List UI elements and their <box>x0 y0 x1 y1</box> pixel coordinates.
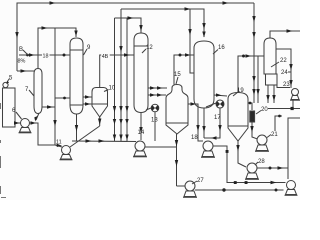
label 22 <box>280 58 287 64</box>
pump 17 <box>206 103 216 107</box>
bottom right collection line <box>268 108 300 110</box>
column 22 right outlet down to pump 23 <box>276 49 291 88</box>
pump 27 discharge line <box>195 189 284 191</box>
label 20 <box>261 107 268 113</box>
slurry diagonal to pump 11 <box>70 126 100 147</box>
svg-text:8%: 8% <box>18 59 26 65</box>
column 16 <box>194 41 214 108</box>
label 4B on vapor line <box>101 52 110 60</box>
pump 14 <box>135 141 145 151</box>
small elbow above pump 21 <box>275 116 282 131</box>
feed into column 7 top <box>17 70 34 72</box>
label 17 <box>214 115 221 121</box>
label 21 <box>271 132 278 138</box>
svg-text:9: 9 <box>87 45 91 51</box>
vessel 15 vapor to column 16 <box>174 55 194 85</box>
pump 29 <box>287 181 296 190</box>
label 23 <box>283 82 290 88</box>
label 18 on feed line <box>42 52 50 60</box>
pipe second header to column 16 <box>121 9 204 37</box>
ejector 20 <box>250 111 255 122</box>
label 14 <box>138 130 145 136</box>
pipe long vertical x127 <box>126 18 128 141</box>
svg-text:18: 18 <box>43 53 49 59</box>
vessel 19 right outlet <box>248 103 252 110</box>
column 9 to vessel 10 lines <box>83 96 92 98</box>
pump 11 <box>62 146 71 155</box>
pump 13 down pipe <box>154 112 156 141</box>
tank 5 agitated <box>3 88 16 127</box>
pipe long vertical x113 <box>114 18 116 141</box>
right riser and exit <box>288 118 300 179</box>
svg-text:27: 27 <box>197 178 204 184</box>
pipe third header to column 12 <box>115 18 142 33</box>
pump 18 discharge <box>213 146 227 183</box>
pump 13 <box>146 108 151 110</box>
column 7 <box>34 69 42 114</box>
vessel 10 <box>92 88 108 105</box>
pump 18 <box>203 141 213 151</box>
pump 11 discharge manifold line <box>72 140 136 143</box>
label 27 <box>197 178 204 184</box>
label 16 <box>218 45 225 51</box>
feed drop into column 16 left <box>190 9 194 73</box>
vessel 15 right outlet <box>188 104 203 141</box>
svg-text:18: 18 <box>191 135 198 141</box>
label 19 <box>237 88 244 94</box>
vessel 10 vapor line to column 12 <box>100 55 134 88</box>
pump 23 discharge down <box>292 101 294 109</box>
leader from B <box>23 50 28 55</box>
column 22 bottom outlet elbow <box>277 85 290 88</box>
svg-text:16: 16 <box>218 45 225 51</box>
svg-text:4B: 4B <box>102 54 109 60</box>
column 12 bottom drain to pump 14 <box>140 113 142 141</box>
label 13 <box>151 118 158 124</box>
vessel 19 <box>228 93 248 127</box>
scan artifacts left edge <box>1 103 7 198</box>
pipe branch x56 <box>54 28 56 145</box>
svg-text:B: B <box>19 47 23 53</box>
svg-text:10: 10 <box>109 86 116 92</box>
svg-text:7: 7 <box>25 87 29 93</box>
pipe vessel15 drain to pump 27 <box>177 185 185 187</box>
column 12 <box>134 33 148 113</box>
pipe long vertical x120 <box>120 9 122 141</box>
svg-text:23: 23 <box>283 82 290 88</box>
vessel 19 bottom drain to pump 28 <box>238 141 246 167</box>
pipe column 7 vapor to column 9 top <box>38 28 76 68</box>
vessel 15 bottom drain <box>176 134 178 186</box>
ejector 20 down to pump 21 <box>252 122 258 139</box>
label 18 pump <box>191 135 198 141</box>
pump 17 down pipe <box>204 108 220 138</box>
pump 28 discharge <box>257 167 288 169</box>
pump 27 <box>185 181 195 191</box>
stirrer motor of tank 5 <box>3 82 8 87</box>
label 15 <box>174 72 181 78</box>
column 9 <box>70 38 83 114</box>
column 16 right outlet to vessel 19 <box>214 95 227 96</box>
bottom transfer line to pump 29 <box>227 182 286 184</box>
label 24 <box>281 70 288 76</box>
pump 14 discharge <box>145 146 177 148</box>
vessel 15 <box>166 85 188 124</box>
label 28 <box>258 159 265 165</box>
column 22 top outlet <box>270 31 300 38</box>
column 7 bottom drain diagonal <box>36 113 39 120</box>
vessel 19 vapor to column 22 <box>238 56 264 93</box>
svg-text:14: 14 <box>138 130 145 136</box>
feed B line into column 9 <box>19 54 70 56</box>
label 5 <box>9 76 13 82</box>
small line into column 9 left <box>55 97 70 99</box>
pipe into pump 11 <box>55 145 62 147</box>
column 7 side outlet <box>42 106 55 108</box>
column 22 bottom box <box>266 74 278 85</box>
column 12 outlets to vessel 15 <box>148 87 167 89</box>
label 9 <box>87 45 91 51</box>
label 10 <box>109 86 116 92</box>
pipe right condensate drop <box>253 3 255 103</box>
svg-text:28: 28 <box>258 159 265 165</box>
pump 6 discharge <box>30 123 56 145</box>
condensate branch x258 <box>257 56 259 103</box>
label 11 <box>56 138 64 146</box>
svg-text:12: 12 <box>146 45 153 51</box>
label 12 <box>146 45 153 51</box>
svg-text:20: 20 <box>261 107 268 113</box>
label 6 <box>12 108 16 114</box>
pump 23 <box>292 89 299 96</box>
pump 28 <box>247 163 257 173</box>
tank 5 outlet to pump 6 <box>15 122 21 124</box>
label B <box>18 47 26 65</box>
column 22 bottom legs <box>267 85 269 103</box>
column 16 bottom center drain <box>203 108 205 138</box>
svg-text:5: 5 <box>9 76 13 82</box>
column 22 <box>264 38 276 74</box>
svg-text:21: 21 <box>271 132 278 138</box>
label 7 <box>25 87 29 93</box>
pump 21 <box>257 135 267 145</box>
pipe top long return line <box>17 3 254 71</box>
vessel 10 bottom drain <box>99 117 101 126</box>
svg-text:22: 22 <box>280 58 287 64</box>
pump 6 <box>21 119 30 128</box>
column 9 bottom drain <box>76 114 78 141</box>
svg-text:24: 24 <box>281 70 288 76</box>
